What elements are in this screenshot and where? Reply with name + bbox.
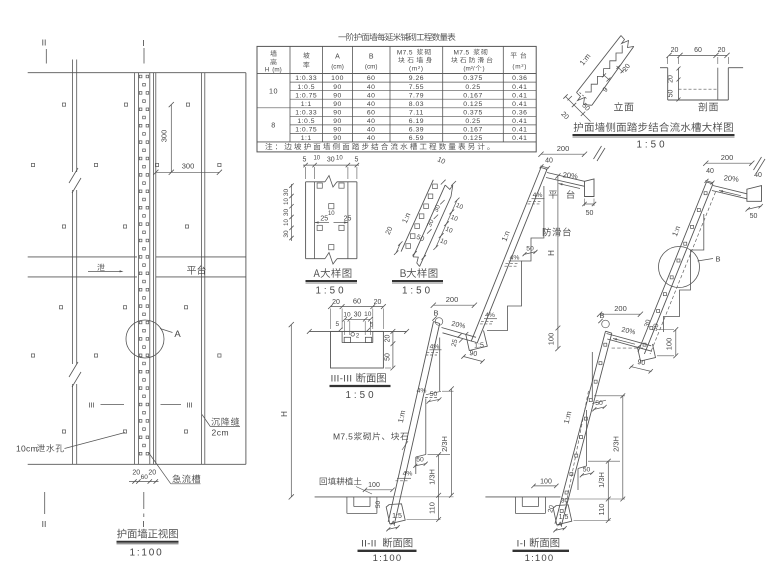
svg-text:40: 40 xyxy=(367,101,376,108)
title 护面墙侧面踏步结合流水槽大样图 1:50 xyxy=(574,122,733,132)
platform top line (right) xyxy=(156,256,246,258)
svg-text:9.26: 9.26 xyxy=(409,75,424,82)
I-I top curb xyxy=(747,186,762,202)
svg-text:1:0.75: 1:0.75 xyxy=(295,127,317,134)
svg-text:B: B xyxy=(369,54,374,61)
svg-text:H: H xyxy=(547,250,556,256)
svg-text:30: 30 xyxy=(283,230,290,238)
svg-text:90: 90 xyxy=(333,92,342,99)
step dims xyxy=(617,66,624,73)
svg-text:4%: 4% xyxy=(485,312,495,319)
svg-text:1:0.33: 1:0.33 xyxy=(295,110,317,117)
svg-text:B: B xyxy=(715,255,720,264)
svg-text:B: B xyxy=(599,311,604,320)
section marker II tick (top) xyxy=(45,49,47,64)
svg-text:1:50: 1:50 xyxy=(402,286,433,297)
svg-text:30: 30 xyxy=(283,189,290,197)
svg-text:60: 60 xyxy=(694,47,702,54)
flume section dims xyxy=(669,54,727,56)
svg-text:30: 30 xyxy=(354,311,362,318)
svg-text:10: 10 xyxy=(284,219,290,226)
wall top edge xyxy=(28,72,246,74)
svg-text:I: I xyxy=(142,519,144,529)
svg-text:50: 50 xyxy=(375,501,382,509)
svg-text:10: 10 xyxy=(269,87,278,96)
svg-text:100: 100 xyxy=(540,479,552,486)
svg-text:1:5: 1:5 xyxy=(474,343,484,350)
inner wall right xyxy=(372,331,374,342)
svg-text:7.79: 7.79 xyxy=(409,92,424,99)
small circle mark xyxy=(351,333,355,337)
svg-text:1:100: 1:100 xyxy=(373,553,403,564)
elevation dashed toe xyxy=(580,93,587,99)
svg-text:5: 5 xyxy=(355,157,359,164)
elevation bottom break xyxy=(577,93,592,106)
svg-text:III: III xyxy=(186,401,192,410)
svg-text:1:0.75: 1:0.75 xyxy=(295,92,317,99)
svg-text:100: 100 xyxy=(368,482,380,489)
svg-text:2/3H: 2/3H xyxy=(440,436,449,452)
svg-text:6.59: 6.59 xyxy=(409,135,424,142)
svg-text:1/3H: 1/3H xyxy=(597,472,606,488)
title B大样图 1:50 xyxy=(401,268,438,278)
svg-text:90: 90 xyxy=(333,110,342,117)
break slash (I-I) xyxy=(754,157,762,170)
II-II backfill label 回填耕植土 xyxy=(320,477,362,485)
svg-text:(m): (m) xyxy=(272,67,281,74)
detail A bottom break xyxy=(325,253,337,265)
svg-text:10: 10 xyxy=(364,311,372,318)
svg-text:(cm): (cm) xyxy=(365,64,378,71)
svg-text:50: 50 xyxy=(595,400,603,407)
svg-text:(m²): (m²) xyxy=(512,64,527,71)
svg-text:1:5: 1:5 xyxy=(392,513,402,520)
svg-text:50: 50 xyxy=(750,213,758,220)
svg-text:0.41: 0.41 xyxy=(512,118,527,125)
svg-text:III-III: III-III xyxy=(331,374,353,385)
svg-text:60: 60 xyxy=(141,474,149,481)
dimension 300 horizontal xyxy=(156,171,220,173)
hidden floor dashed xyxy=(679,88,718,90)
svg-text:0.375: 0.375 xyxy=(463,110,483,117)
platform bottom line (left) xyxy=(28,276,137,278)
break slash xyxy=(594,146,602,159)
label 沉降缝 2cm xyxy=(202,415,210,427)
I-I hidden dashed line (upper) xyxy=(650,192,716,354)
svg-text:20%: 20% xyxy=(562,170,578,181)
svg-text:M7.5: M7.5 xyxy=(453,50,469,57)
detail B band edges xyxy=(401,180,433,252)
joint break marks xyxy=(69,168,78,183)
svg-text:1:0.5: 1:0.5 xyxy=(297,118,315,125)
svg-text:20: 20 xyxy=(374,299,382,306)
svg-text:10: 10 xyxy=(343,312,351,319)
II-II middle platform 200 dim xyxy=(433,304,474,306)
I-I wall cap xyxy=(707,182,713,184)
svg-text:90: 90 xyxy=(637,359,646,367)
svg-text:40: 40 xyxy=(545,158,553,165)
table frame xyxy=(257,46,536,151)
svg-text:5: 5 xyxy=(303,157,307,164)
svg-text:30: 30 xyxy=(561,498,569,505)
svg-text:10: 10 xyxy=(336,156,343,162)
section marker I bottom xyxy=(143,492,145,509)
svg-text:20%: 20% xyxy=(723,173,739,184)
I-I excavation step profile xyxy=(664,214,704,332)
svg-text:10: 10 xyxy=(284,198,290,205)
II-II top curb xyxy=(585,179,595,197)
svg-text:4%: 4% xyxy=(533,192,543,199)
svg-text:60: 60 xyxy=(367,110,376,117)
ground line xyxy=(309,330,406,332)
svg-text:40: 40 xyxy=(367,118,376,125)
detail A left dims 30 10 30 10 30 xyxy=(291,184,293,241)
svg-text:0.167: 0.167 xyxy=(463,92,483,99)
I-I ground line xyxy=(485,496,560,498)
svg-text:H: H xyxy=(265,67,270,74)
svg-text:90: 90 xyxy=(333,118,342,125)
drain holes (10cm weep holes) xyxy=(62,103,65,106)
svg-text:I: I xyxy=(142,38,144,48)
svg-text:25: 25 xyxy=(344,216,352,223)
svg-text:60: 60 xyxy=(353,296,361,305)
detail A outline xyxy=(305,182,307,259)
I-I lower footing xyxy=(553,505,572,525)
svg-text:1:50: 1:50 xyxy=(315,286,346,297)
I-I lower wall band xyxy=(555,331,606,524)
svg-text:1:1: 1:1 xyxy=(301,101,312,108)
detail B right side dims xyxy=(436,200,457,248)
svg-text:200: 200 xyxy=(446,295,459,304)
svg-text:110: 110 xyxy=(597,504,606,516)
svg-text:(m²): (m²) xyxy=(409,66,424,73)
bottom end dims 50 20 xyxy=(566,97,591,122)
I-I footing dim 90 xyxy=(631,367,652,372)
svg-text:1/3H: 1/3H xyxy=(428,469,437,485)
svg-text:200: 200 xyxy=(557,144,570,153)
II-II upper footing xyxy=(466,331,488,351)
wall bottom edge xyxy=(28,463,246,465)
chute stipple squares xyxy=(139,75,142,78)
I-I top dims 200 40 40 xyxy=(706,162,752,164)
svg-text:H: H xyxy=(280,411,289,417)
svg-text:0.41: 0.41 xyxy=(512,135,527,142)
svg-text:90: 90 xyxy=(333,84,342,91)
table note xyxy=(265,143,489,150)
svg-text:(m²/: (m²/ xyxy=(463,66,474,73)
svg-text:0.41: 0.41 xyxy=(512,101,527,108)
table title xyxy=(338,33,455,41)
svg-text:10: 10 xyxy=(328,211,335,217)
svg-text:8: 8 xyxy=(271,121,276,130)
svg-text:300: 300 xyxy=(182,162,195,171)
detail A squares xyxy=(317,183,322,188)
svg-text:100: 100 xyxy=(331,75,344,82)
I-I dim 100 (platform) xyxy=(675,330,677,356)
svg-text:20: 20 xyxy=(132,470,140,477)
svg-text:0.25: 0.25 xyxy=(465,118,480,125)
svg-text:II: II xyxy=(42,38,47,48)
svg-text:A: A xyxy=(335,54,340,61)
label 剖面 xyxy=(698,102,717,111)
svg-text:1:0.5: 1:0.5 xyxy=(297,84,315,91)
flume section U channel xyxy=(660,67,668,69)
II-II platform label xyxy=(549,191,557,199)
svg-text:M7.5: M7.5 xyxy=(397,50,413,57)
svg-text:1:50: 1:50 xyxy=(345,390,376,401)
flow arrow line xyxy=(88,271,120,273)
svg-text:10cm: 10cm xyxy=(16,444,38,454)
svg-text:M7.5: M7.5 xyxy=(333,432,353,442)
I-I upper wall band xyxy=(638,182,707,352)
I-I detail circle B xyxy=(659,247,700,288)
svg-text:20: 20 xyxy=(668,75,675,83)
channel floor xyxy=(342,342,373,344)
II-II back profile with 50 steps xyxy=(439,338,441,392)
svg-text:20: 20 xyxy=(718,47,726,54)
svg-text:90: 90 xyxy=(469,350,478,358)
curb blocks on floor xyxy=(344,337,350,342)
svg-text:(cm): (cm) xyxy=(331,64,344,71)
svg-text:1:50: 1:50 xyxy=(636,140,667,151)
svg-text:6.19: 6.19 xyxy=(409,118,424,125)
title A大样图 1:50 xyxy=(314,268,352,278)
detail B top break xyxy=(445,185,453,196)
svg-text:90: 90 xyxy=(333,101,342,108)
svg-text:50: 50 xyxy=(430,391,438,398)
svg-text:40: 40 xyxy=(367,92,376,99)
I-I right dims 2/3H 1/3H 110 xyxy=(622,396,624,499)
svg-text:B: B xyxy=(433,309,438,318)
svg-text:40: 40 xyxy=(367,135,376,142)
svg-text:0.125: 0.125 xyxy=(463,101,483,108)
II-II ground line xyxy=(315,496,394,498)
svg-text:1:100: 1:100 xyxy=(525,553,555,564)
svg-text:2/3H: 2/3H xyxy=(612,436,621,452)
svg-text:1:0.33: 1:0.33 xyxy=(295,75,317,82)
II-II top dims 200 40 xyxy=(541,153,585,155)
svg-text:6.39: 6.39 xyxy=(409,127,424,134)
svg-text:0.41: 0.41 xyxy=(512,84,527,91)
title 护面墙正视图 1:100 xyxy=(117,529,178,539)
svg-text:10: 10 xyxy=(313,156,320,162)
wall right edge xyxy=(245,73,247,465)
svg-text:30: 30 xyxy=(327,157,335,164)
svg-text:20: 20 xyxy=(332,299,340,306)
svg-text:II: II xyxy=(42,519,47,529)
svg-text:0.25: 0.25 xyxy=(465,84,480,91)
II-II H dimension xyxy=(557,176,559,349)
II-II top platform 20% xyxy=(547,173,585,182)
I-I platform dim 200 xyxy=(600,313,641,315)
label 急流槽 xyxy=(149,453,171,484)
II-II upper wall benches 4% xyxy=(532,198,545,200)
svg-text:7.11: 7.11 xyxy=(409,110,424,117)
svg-text:300: 300 xyxy=(160,130,169,143)
svg-text:40: 40 xyxy=(706,168,714,175)
svg-text:20: 20 xyxy=(384,335,391,343)
II-II lower wall benches xyxy=(430,349,442,351)
platform top line (left) xyxy=(28,256,137,258)
svg-text:III: III xyxy=(88,401,94,410)
settlement joint double line xyxy=(72,60,74,173)
II-II footing dim A xyxy=(388,527,399,530)
svg-text:200: 200 xyxy=(614,304,627,313)
detail A top break xyxy=(325,176,337,188)
svg-text:20: 20 xyxy=(148,470,156,477)
svg-text:60: 60 xyxy=(367,75,376,82)
svg-text:110: 110 xyxy=(428,502,437,514)
svg-text:50: 50 xyxy=(526,246,534,253)
svg-text:200: 200 xyxy=(721,153,734,162)
II-II trench xyxy=(346,497,348,514)
II-II lower footing xyxy=(386,504,405,524)
platform bottom line (right) xyxy=(156,276,246,278)
I-I curb dim 50 xyxy=(747,206,762,210)
detail circle A xyxy=(126,320,164,358)
elevation sawtooth steps xyxy=(585,45,622,92)
svg-text:4%: 4% xyxy=(430,343,440,350)
detail B bottom break xyxy=(413,257,420,267)
svg-text:0.41: 0.41 xyxy=(512,127,527,134)
II-II wall cap xyxy=(541,168,547,170)
II-II lower wall cap xyxy=(434,322,440,324)
section marker III right xyxy=(161,404,182,406)
svg-text:1:100: 1:100 xyxy=(129,548,163,559)
chute band lines xyxy=(134,73,136,465)
svg-text:1:5: 1:5 xyxy=(559,514,569,521)
svg-text:8.03: 8.03 xyxy=(409,101,424,108)
svg-text:50: 50 xyxy=(668,90,675,98)
elevation top break xyxy=(621,36,634,48)
svg-text:40: 40 xyxy=(754,172,762,179)
svg-text:20: 20 xyxy=(671,47,679,54)
right settlement joint double line xyxy=(201,73,203,465)
svg-text:0.167: 0.167 xyxy=(463,127,483,134)
svg-text:A: A xyxy=(174,329,181,340)
III-III right dims 20 50 xyxy=(392,331,394,368)
II-II upper wall band xyxy=(471,168,541,342)
svg-text:40: 40 xyxy=(367,127,376,134)
inner wall left xyxy=(341,331,343,342)
label 立面 xyxy=(614,102,633,111)
svg-text:100: 100 xyxy=(547,333,556,346)
table headers xyxy=(270,50,276,56)
section marker II bottom xyxy=(44,492,46,514)
II-II right dims 2/3H 1/3H 110 xyxy=(450,389,452,496)
svg-text:90: 90 xyxy=(333,135,342,142)
II-II anti-slip bench label xyxy=(543,228,571,237)
II-II lower wall band xyxy=(388,322,433,523)
I-I upper footing xyxy=(638,344,656,361)
I-I trench xyxy=(514,497,516,514)
I-I top platform 20% xyxy=(713,186,747,194)
svg-text:0.36: 0.36 xyxy=(512,75,527,82)
II-II footing dim 90 xyxy=(464,357,483,362)
detail A top dims 5 10 30 10 5 xyxy=(303,164,359,166)
svg-text:5: 5 xyxy=(335,321,339,328)
I-I lower band squares xyxy=(604,343,607,346)
svg-text:50: 50 xyxy=(586,210,594,217)
svg-text:90: 90 xyxy=(333,127,342,134)
I-I platform slab xyxy=(607,334,652,346)
svg-text:50: 50 xyxy=(583,467,591,474)
svg-text:30: 30 xyxy=(283,209,290,217)
svg-text:4%: 4% xyxy=(417,387,427,394)
svg-text:100: 100 xyxy=(665,338,674,351)
II-II middle platform slab xyxy=(442,328,477,338)
III-III top dims xyxy=(331,306,384,308)
dimension 300 vertical xyxy=(170,105,172,173)
svg-text:I-I: I-I xyxy=(517,539,527,550)
svg-text:0.41: 0.41 xyxy=(512,92,527,99)
I-I footing dim A xyxy=(555,528,566,531)
channel outer box xyxy=(331,331,384,368)
svg-text:7.55: 7.55 xyxy=(409,84,424,91)
overall H dimension (left of II-II) xyxy=(290,325,292,497)
II-II excavation step profile xyxy=(487,186,544,331)
II-II curb dim 50 xyxy=(585,203,595,205)
svg-text:0.125: 0.125 xyxy=(463,135,483,142)
svg-text:40: 40 xyxy=(367,84,376,91)
section marker I tick (top) xyxy=(143,48,145,64)
flow label 泄 xyxy=(97,264,104,271)
detail B squares xyxy=(406,244,411,249)
I-I back profile steps xyxy=(591,352,593,401)
svg-text:0.375: 0.375 xyxy=(463,75,483,82)
I-I band squares (stair steps) xyxy=(704,192,707,195)
svg-text:1:1: 1:1 xyxy=(301,135,312,142)
svg-text:II-II: II-II xyxy=(361,539,377,550)
I-I hidden dashed (platform + lower) xyxy=(610,347,643,349)
label 平台 (plan) xyxy=(187,265,206,274)
svg-text:4%: 4% xyxy=(403,470,413,477)
svg-text:0.36: 0.36 xyxy=(512,110,527,117)
svg-text:): ) xyxy=(482,66,484,73)
elevation band outline xyxy=(577,36,622,93)
svg-text:50: 50 xyxy=(384,353,391,361)
svg-text:50: 50 xyxy=(416,457,424,464)
leader to A xyxy=(160,329,173,333)
svg-text:2cm: 2cm xyxy=(212,428,230,438)
svg-text:4%: 4% xyxy=(510,255,520,262)
